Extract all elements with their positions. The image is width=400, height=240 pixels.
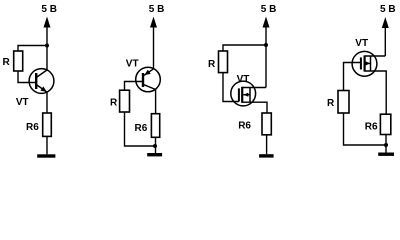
svg-text:R: R [327, 98, 335, 109]
transistor VT (circuit 2) PNP [136, 67, 161, 92]
power +5V arrow (circuit 3) [263, 17, 270, 46]
wire: resistor R bottom to base (circuit 1) [18, 71, 36, 83]
wire: drain stub to +5V rail (circuit 3) [242, 87, 266, 89]
wire: emitter to resistor R6 (circuit 1) [46, 92, 48, 113]
transistor VT (circuit 4) p-channel MOSFET [352, 51, 377, 76]
resistor R (circuit 4) [338, 91, 349, 114]
wire: resistor R to bottom rail (circuit 2) [125, 112, 156, 146]
transistor VT (circuit 1) NPN [29, 69, 54, 94]
resistor R6 (circuit 1) [43, 113, 52, 136]
svg-text:VT: VT [126, 59, 139, 70]
svg-text:5 В: 5 В [41, 4, 57, 15]
wire: junction to resistor R top (circuit 1) [18, 46, 47, 52]
node: ground junction (circuit 4) [384, 143, 388, 147]
svg-text:R: R [110, 98, 118, 109]
wire: drain stub to +5V rail (circuit 4) [365, 55, 386, 57]
node: gate-resistor junction (circuit 3) [264, 43, 268, 47]
ground (circuit 1) [37, 154, 55, 157]
power +5V arrow (circuit 1) [44, 17, 51, 46]
resistor R (circuit 3) [219, 51, 228, 73]
node: base-divider junction (circuit 1) [45, 44, 49, 48]
svg-text:VT: VT [355, 38, 368, 49]
wire: source to resistor R6 (circuit 3) [242, 102, 267, 113]
svg-text:R: R [208, 59, 216, 70]
resistor R6 (circuit 2) [151, 114, 159, 138]
ground (circuit 2) [147, 153, 162, 156]
svg-text:5 В: 5 В [261, 4, 277, 15]
svg-text:R: R [3, 57, 11, 68]
svg-text:R6: R6 [238, 121, 251, 132]
ground (circuit 4) [378, 153, 394, 156]
wire: gate to resistor R (circuit 4) [344, 63, 361, 91]
svg-text:VT: VT [237, 74, 250, 85]
resistor R (circuit 1) [14, 51, 23, 71]
power +5V arrow (circuit 2) [150, 17, 157, 69]
resistor R (circuit 2) [120, 90, 130, 112]
ground (circuit 3) [259, 154, 274, 157]
power +5V arrow (circuit 4) [382, 17, 389, 56]
transistor VT (circuit 3) n-channel MOSFET [231, 81, 256, 106]
wire: base to resistor R (circuit 2) [125, 82, 144, 91]
svg-text:5 В: 5 В [380, 4, 396, 15]
resistor R6 (circuit 4) [380, 114, 390, 134]
wire: R6 through node to ground (circuit 4) [385, 135, 387, 153]
wire: source to resistor R6 (circuit 4) [365, 71, 387, 114]
wire: +5V rail to drain (circuit 3) [265, 45, 267, 88]
wire: R6 to ground node (circuit 2) [155, 137, 157, 153]
wire: resistor R to bottom rail (circuit 4) [344, 113, 387, 145]
node: ground junction (circuit 2) [153, 144, 157, 148]
wire: +5V rail to collector (circuit 1) [46, 46, 48, 71]
wire: R6 to ground (circuit 1) [46, 136, 48, 154]
wire: R6 to ground (circuit 3) [266, 135, 268, 154]
wire: junction to resistor R top (circuit 3) [223, 45, 266, 51]
wire: collector to resistor R6 (circuit 2) [155, 90, 157, 114]
svg-text:5 В: 5 В [149, 4, 165, 15]
resistor R6 (circuit 3) [262, 113, 271, 135]
svg-text:R6: R6 [26, 122, 39, 133]
svg-text:R6: R6 [135, 123, 148, 134]
svg-text:VT: VT [16, 97, 29, 108]
svg-text:R6: R6 [365, 122, 378, 133]
wire: resistor R to gate (circuit 3) [223, 73, 239, 102]
